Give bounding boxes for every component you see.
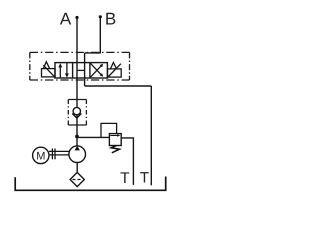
valve centre position H left stem — [76, 63, 78, 78]
valve centre position H crossbar — [77, 69, 85, 71]
valve right position crossed arrow 1 — [91, 63, 104, 77]
tank reservoir — [15, 177, 166, 191]
svg-text:B: B — [105, 9, 116, 28]
valve V1 enclosure (chain line) — [30, 52, 130, 80]
wire B vertical — [99, 17, 101, 53]
valve left position down arrow — [65, 63, 69, 78]
relief valve RV1 body — [109, 134, 121, 146]
pump outlet triangle — [75, 146, 80, 151]
junction dot pump outlet — [75, 135, 79, 139]
node A junction dot — [75, 16, 78, 19]
svg-text:T: T — [120, 170, 130, 187]
wire A vertical — [76, 18, 78, 63]
relief valve spring — [111, 146, 119, 153]
check valve seat — [72, 114, 81, 119]
node B junction dot — [99, 15, 102, 18]
check valve enclosure (chain line) — [68, 100, 86, 126]
wire B jog down to valve — [84, 53, 86, 63]
wire P line valve to check valve — [76, 78, 78, 108]
valve centre position H right stem — [84, 63, 86, 78]
filter element dashed line — [73, 179, 82, 181]
wire T runner horizontal — [85, 85, 152, 87]
valve V1 body — [55, 63, 107, 78]
wire B jog horizontal — [85, 52, 101, 54]
valve right position crossed arrow 2 — [91, 64, 104, 78]
node B label — [105, 9, 116, 28]
wire relief valve outlet — [121, 138, 133, 185]
svg-text:T: T — [140, 169, 149, 186]
shaft coupling double line — [49, 151, 69, 155]
wire branch to relief valve — [77, 136, 109, 138]
valve V1 divider middle/right — [89, 63, 91, 78]
relief valve pilot loop — [101, 123, 117, 137]
motor M1 circle — [33, 147, 49, 163]
relief valve flow arrow — [110, 134, 120, 137]
check valve ball — [73, 107, 80, 114]
wire T stub below valve — [84, 78, 86, 86]
svg-text:A: A — [60, 9, 72, 28]
wire pump suction — [76, 163, 78, 173]
wire check valve to pump — [76, 115, 78, 146]
filter F1 diamond — [70, 172, 84, 186]
wire T runner down to tank — [150, 86, 152, 185]
pump P1 circle — [69, 146, 86, 163]
valve left position up arrow — [58, 63, 62, 78]
shaft coupling ticks — [52, 149, 55, 160]
valve V1 divider left/middle — [72, 63, 74, 78]
node A label — [60, 9, 72, 28]
solenoid right (box, diagonal, arrow peak) — [108, 63, 122, 78]
svg-text:M: M — [36, 150, 45, 162]
solenoid left (box, diagonal, arrow peak) — [42, 62, 56, 77]
